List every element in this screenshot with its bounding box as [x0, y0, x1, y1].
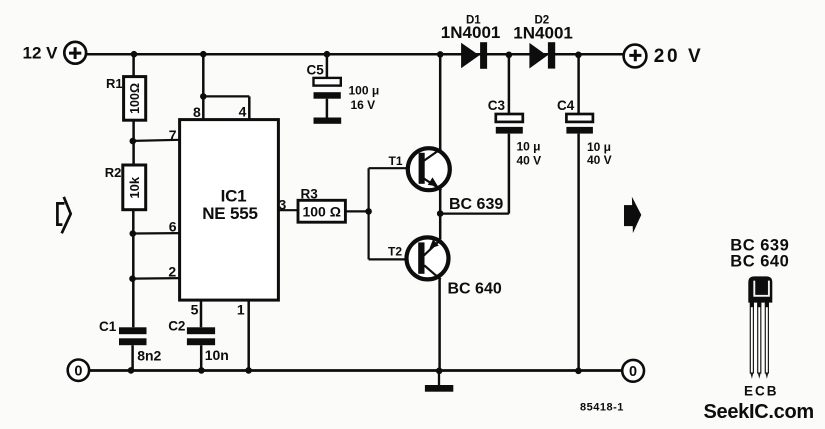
svg-text:40 V: 40 V	[517, 153, 542, 167]
svg-text:R3: R3	[301, 187, 319, 202]
svg-text:6: 6	[169, 218, 177, 234]
svg-text:5: 5	[191, 302, 199, 318]
svg-text:1N4001: 1N4001	[441, 23, 501, 42]
svg-text:100Ω: 100Ω	[128, 83, 142, 114]
svg-text:BC 639: BC 639	[449, 196, 503, 213]
svg-text:20 V: 20 V	[654, 46, 704, 67]
svg-text:R1: R1	[106, 76, 123, 91]
svg-text:40 V: 40 V	[587, 153, 612, 167]
svg-text:10 μ: 10 μ	[517, 140, 541, 154]
svg-text:7: 7	[169, 127, 177, 143]
svg-text:IC1: IC1	[221, 186, 247, 205]
svg-text:T1: T1	[389, 154, 403, 168]
svg-text:100 Ω: 100 Ω	[302, 203, 340, 219]
svg-text:0: 0	[74, 363, 82, 379]
svg-text:12 V: 12 V	[23, 43, 59, 62]
svg-text:BC 640: BC 640	[448, 281, 502, 298]
svg-text:C4: C4	[557, 98, 575, 113]
svg-text:8: 8	[193, 104, 201, 120]
svg-text:16 V: 16 V	[351, 98, 376, 112]
svg-text:1: 1	[237, 302, 245, 318]
svg-text:C2: C2	[168, 319, 185, 334]
svg-text:85418-1: 85418-1	[580, 402, 624, 414]
svg-text:C3: C3	[488, 98, 506, 113]
svg-text:8n2: 8n2	[137, 348, 161, 364]
svg-text:C5: C5	[307, 63, 325, 78]
svg-text:T2: T2	[388, 245, 402, 259]
svg-text:SeekIC.com: SeekIC.com	[704, 401, 814, 423]
svg-text:3: 3	[279, 196, 287, 212]
svg-text:R2: R2	[105, 165, 122, 180]
svg-text:1N4001: 1N4001	[513, 23, 573, 42]
svg-text:100 μ: 100 μ	[349, 84, 380, 98]
svg-text:ECB: ECB	[744, 384, 779, 399]
svg-text:BC 640: BC 640	[730, 252, 789, 270]
svg-text:4: 4	[239, 104, 247, 120]
svg-text:NE 555: NE 555	[202, 204, 258, 223]
svg-text:2: 2	[168, 263, 176, 279]
svg-text:10k: 10k	[127, 176, 142, 198]
svg-text:10 μ: 10 μ	[587, 140, 611, 154]
svg-text:0: 0	[629, 364, 637, 380]
svg-text:10n: 10n	[205, 347, 229, 363]
svg-text:C1: C1	[99, 319, 117, 334]
